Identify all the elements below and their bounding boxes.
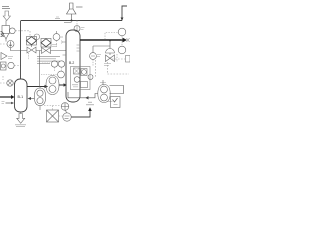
edge box with X (left margin) <box>1 32 4 37</box>
wire: P-3 discharge loop <box>110 86 124 94</box>
control valve CV-3 (dome actuator) <box>106 49 115 54</box>
instrument bubble I3 with X <box>7 80 13 86</box>
column B-2 <box>66 30 80 102</box>
label: feed-from text <box>2 7 10 9</box>
rotary pump P-3 (two-circle symbol) <box>98 85 110 103</box>
P-1 discharge arrow to column <box>59 84 64 86</box>
instrument bubble I4 <box>53 34 60 41</box>
instrument bubble between valves <box>34 34 40 40</box>
wire: vent line to flare with up arrow and label <box>71 111 90 118</box>
wire: main overhead line L1 <box>21 20 123 22</box>
svg-text:B-1: B-1 <box>18 95 24 99</box>
relief valve PSV-1 <box>67 3 77 14</box>
wire: P-4 outlet to feed pipe <box>11 48 21 51</box>
rotary pump P-2 (two-circle symbol) <box>39 87 41 89</box>
agitator/mixer circle M-1 <box>61 103 69 111</box>
wire: column bottoms to pump P-3 with arrow <box>68 92 98 98</box>
off-page feed arrow (hollow, into strainer) <box>3 11 10 21</box>
package unit box beside column <box>71 67 91 90</box>
bold feed arrow into B-1 <box>0 96 12 98</box>
wire: pipe through FV-1/FV-2 to column <box>21 50 67 52</box>
small logic box with check mark <box>111 97 121 108</box>
rotary pump P-1 (two-circle symbol) <box>46 76 59 95</box>
vent nozzle symbol with label <box>1 53 7 60</box>
wire: drop line to P-1/P-2 header <box>39 51 41 87</box>
wire: bold product line L3 with arrowhead <box>80 39 123 41</box>
strainer/feed hopper <box>5 21 7 26</box>
control valve FV-1 (diamond actuator) <box>27 37 37 46</box>
notes text block <box>37 57 60 64</box>
wire: B-1 outlet to pump P-1 (bold) <box>27 86 48 88</box>
arrowhead at L1/riser junction <box>121 18 124 21</box>
B-1 bottoms outlet hollow arrow with label <box>20 112 22 114</box>
wire: P-2 bottom stub and dashed signals <box>39 106 41 110</box>
vessel B-1 <box>15 79 28 112</box>
P-2 discharge arrow into B-1 <box>31 98 35 100</box>
control valve FV-2 (diamond actuator) <box>41 39 51 48</box>
wire: vertical feed drop L2 to vessel B-1 <box>20 21 22 79</box>
signal line to P-4 <box>0 43 7 45</box>
instrument bubbles above P-1 <box>51 61 57 67</box>
instrument bubble I2 <box>8 62 14 68</box>
instrument bubble I1 <box>9 28 15 34</box>
secondary inlet arrow into B-1 <box>6 102 12 104</box>
inline pump/ejector P-4 <box>7 41 14 48</box>
value label on L1 <box>55 17 60 19</box>
small unit box with circle <box>1 62 7 70</box>
column B-2 nozzle marks <box>63 42 67 55</box>
instrument bubble I5 under L1 <box>76 21 78 26</box>
signal/dashed boundary lines right <box>112 58 125 60</box>
wire: top-right riser hook <box>122 6 127 21</box>
signal line I1 to valve FV-1 <box>15 31 30 36</box>
instrument bubbles E/F right side <box>118 28 126 36</box>
svg-text:B-2: B-2 <box>69 61 74 65</box>
motor circle M-2 <box>63 113 71 121</box>
exchanger box with X (E-1) <box>47 110 59 122</box>
